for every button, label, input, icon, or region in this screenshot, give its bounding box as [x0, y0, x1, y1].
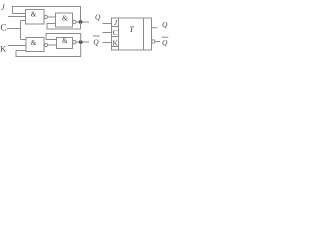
- svg-text:&: &: [31, 39, 37, 47]
- flip-flop DD1 J/C cell separator: [112, 26, 119, 28]
- overline of Qbar label (DD1): [162, 36, 169, 38]
- inverter bubble D3 output: [73, 20, 76, 23]
- wire C branch to D1: [21, 20, 26, 22]
- wire D3 output Q: [76, 21, 89, 23]
- flip-flop DD1 K cell bottom separator: [112, 46, 119, 48]
- svg-text:&: &: [62, 37, 68, 45]
- wire bottom feedback rail: [16, 44, 81, 57]
- wire C branch to D2: [21, 39, 27, 41]
- svg-text:Q: Q: [162, 20, 168, 29]
- svg-text:T: T: [129, 25, 134, 34]
- junction dot on Q output: [79, 20, 83, 24]
- wire C input: [7, 28, 21, 30]
- overline of Qbar label (left circuit): [93, 35, 100, 37]
- wire Q output of DD1: [152, 27, 158, 29]
- inverter bubble D4 output: [73, 41, 76, 44]
- wire top feedback rail: [13, 7, 81, 21]
- wire top feedback stub into D1: [13, 13, 26, 15]
- svg-text:K: K: [0, 44, 7, 54]
- inverter bubble D1 output: [44, 15, 47, 18]
- svg-text:&: &: [62, 14, 68, 22]
- wire D2 output to D4: [48, 44, 57, 46]
- inverter bubble D2 output: [44, 43, 47, 46]
- wire D1 output to D3: [47, 16, 55, 18]
- svg-text:C: C: [1, 23, 7, 33]
- gate D2 (AND-NOT) box: [26, 38, 44, 52]
- flip-flop DD1 C/K cell separator: [112, 36, 119, 38]
- svg-text:Q: Q: [95, 12, 101, 21]
- gate D1 (AND-NOT) box: [26, 10, 45, 25]
- svg-text:&: &: [31, 10, 37, 18]
- svg-text:Q: Q: [93, 37, 99, 46]
- wire bottom feedback stub into D2: [16, 50, 26, 52]
- gate D4 (AND-NOT) box: [57, 38, 73, 49]
- flip-flop DD1 left divider: [118, 18, 120, 50]
- flip-flop DD1 symbol body: [112, 18, 152, 50]
- wire D4 output Qbar: [76, 41, 89, 43]
- gate D3 (AND-NOT) box: [56, 13, 73, 27]
- wire J input of DD1: [103, 23, 112, 25]
- wire K input: [8, 45, 26, 47]
- svg-text:K: K: [113, 38, 119, 47]
- wire C input of DD1: [103, 32, 112, 34]
- wire cross-coupling lower: Qbar up to rail then into D4 upper input: [46, 34, 81, 43]
- svg-text:J: J: [1, 3, 5, 12]
- wire J input: [8, 16, 26, 18]
- junction dot on Qbar output: [79, 40, 83, 44]
- inverter bubble Qbar output of DD1: [152, 40, 155, 43]
- wire K input of DD1: [103, 42, 112, 44]
- flip-flop DD1 right divider: [143, 18, 145, 50]
- wire cross-coupling upper: Q down to rail then into D3 lower input: [47, 22, 81, 29]
- wire Qbar output of DD1: [155, 41, 160, 43]
- svg-text:Q: Q: [162, 38, 168, 47]
- svg-text:C: C: [113, 28, 118, 37]
- wire C branch vertical: [20, 21, 22, 40]
